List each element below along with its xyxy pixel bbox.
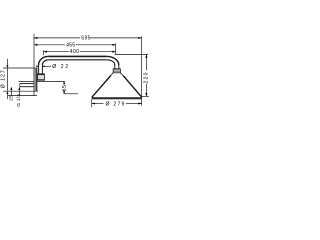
cone apex right <box>120 73 123 76</box>
spray face rim <box>92 97 143 99</box>
right bend outer arc <box>107 56 119 65</box>
220 bottom tick <box>141 95 149 97</box>
vertical pipe left edges <box>38 65 40 74</box>
svg-text:Ø 127: Ø 127 <box>1 69 7 88</box>
arrow 400 right <box>112 51 115 53</box>
right vertical pipe edges <box>114 65 116 69</box>
dim 127 bottom tick <box>3 90 38 92</box>
dim 25 line <box>10 87 12 95</box>
arrow G12 up <box>18 87 20 90</box>
dim 279 line <box>92 103 104 105</box>
dim 400 line <box>44 51 69 53</box>
arrow 65 bottom <box>63 91 65 94</box>
dim 25 bottom tick <box>8 95 37 97</box>
left bend outer arc <box>39 56 49 65</box>
cone apex left <box>111 73 114 76</box>
extension line cone left <box>91 99 93 107</box>
svg-text:Ø 279: Ø 279 <box>106 101 126 107</box>
220 dim line <box>145 55 147 71</box>
svg-text:Ø 22: Ø 22 <box>52 64 69 70</box>
arrow 65 top <box>63 81 65 84</box>
arrow 455 right <box>112 44 115 46</box>
cone left flank <box>92 76 111 98</box>
svg-text:400: 400 <box>70 49 80 55</box>
shower arm pipe <box>39 56 119 73</box>
arrow O22 left <box>36 65 38 67</box>
arrow 220 bottom <box>145 93 147 96</box>
dimension texts <box>1 35 150 107</box>
svg-text:G 1/2: G 1/2 <box>16 94 22 107</box>
dim 127 line <box>6 68 8 91</box>
extension line 400 left <box>43 50 45 55</box>
right bend inner arc <box>107 60 115 65</box>
supply stub G 1/2 <box>20 84 34 87</box>
extension line cone right / 595 right <box>141 36 143 105</box>
arrow 279 left <box>92 102 95 104</box>
arrow 400 left <box>44 51 47 53</box>
union nut at wall <box>38 74 45 80</box>
dim 65 top tick <box>19 80 65 82</box>
220 top tick <box>115 54 149 56</box>
cone right flank <box>123 76 142 98</box>
svg-text:220: 220 <box>143 71 149 83</box>
arrow 127 bottom <box>6 91 8 94</box>
dim 65 line <box>63 81 65 83</box>
dim 455 line <box>34 44 65 46</box>
pipe horizontal bottom edge <box>48 59 107 61</box>
arrow 220 top <box>145 55 147 58</box>
svg-text:455: 455 <box>66 42 75 48</box>
dim O22 line <box>36 65 38 67</box>
wall line <box>33 34 35 96</box>
arrowheads <box>6 37 147 105</box>
arrow O22 right <box>42 65 44 67</box>
arrow 595 left <box>34 37 37 39</box>
dim 127 top tick <box>3 67 34 69</box>
arrow 127 top <box>6 65 8 68</box>
arrow 455 left <box>34 44 37 46</box>
svg-text:595: 595 <box>81 35 91 41</box>
svg-text:65: 65 <box>62 84 68 91</box>
left bend inner arc <box>42 60 48 65</box>
arrow 25 up <box>10 87 12 90</box>
arrow 595 right <box>138 37 141 39</box>
pipe horizontal top edge <box>48 55 107 57</box>
svg-text:25: 25 <box>9 95 15 101</box>
extension line right of arm axis <box>115 43 117 54</box>
dim 65 bottom tick <box>64 93 79 95</box>
joint nut at cone apex <box>113 69 120 73</box>
wall plate escutcheon <box>34 68 37 91</box>
G 1/2 leader line <box>18 87 20 95</box>
cone lamp shade <box>92 73 142 98</box>
dim 595 line <box>34 37 80 39</box>
arrow 279 right <box>138 102 141 104</box>
